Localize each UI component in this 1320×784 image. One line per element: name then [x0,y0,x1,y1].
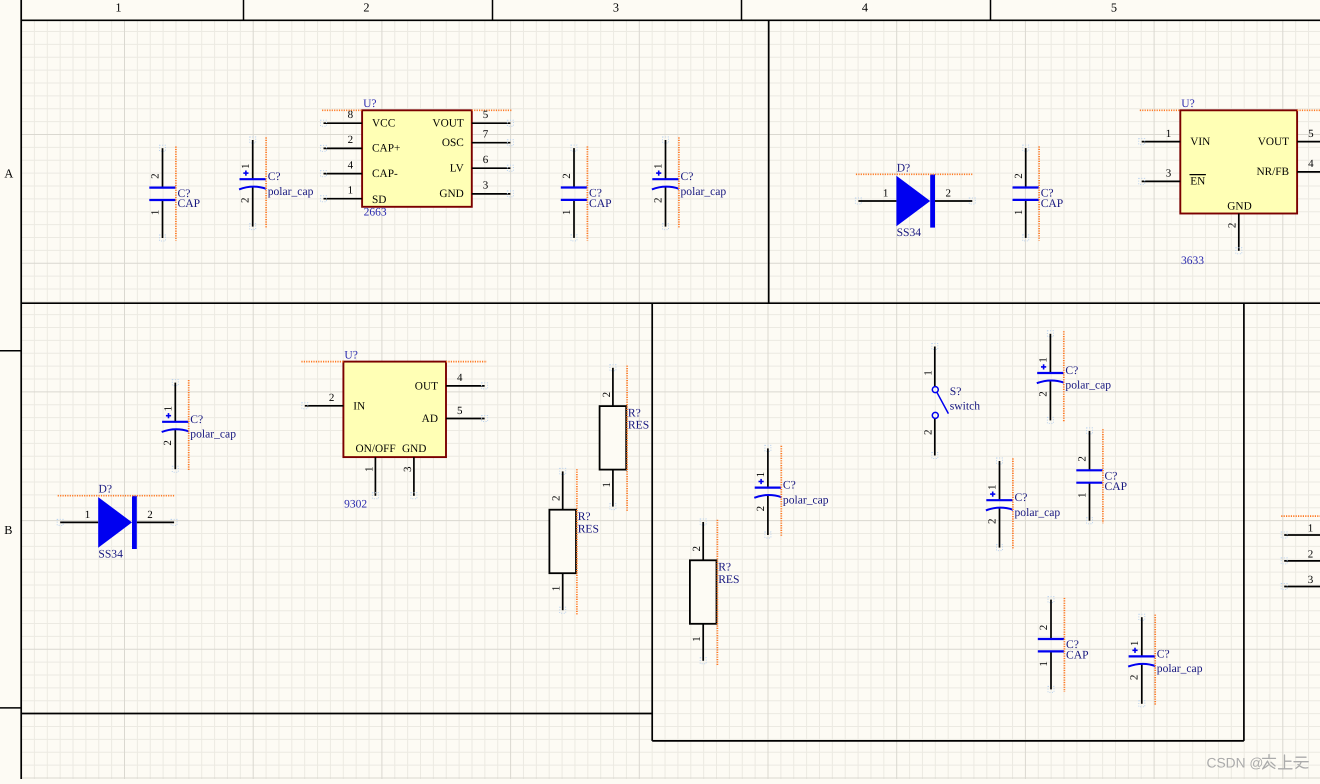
svg-text:R?: R? [578,510,591,523]
svg-text:polar_cap: polar_cap [268,185,314,198]
svg-text:CSDN @: CSDN @ [1207,755,1264,770]
resistor R3 (RES) [690,519,740,666]
svg-text:1: 1 [1308,523,1314,535]
svg-text:1: 1 [601,482,613,488]
partial IC U4 at right edge: orange top line [1281,515,1320,517]
switch S1 [922,344,980,459]
svg-text:1: 1 [348,185,354,197]
svg-text:4: 4 [1308,158,1314,170]
svg-text:GND: GND [439,188,463,200]
diode D1 (SS34) [855,161,975,239]
svg-text:7: 7 [483,129,489,141]
svg-text:2: 2 [240,197,252,203]
svg-text:1: 1 [922,370,934,376]
middle-left sheet bottom border y=713.5 [21,713,652,715]
svg-text:OUT: OUT [415,381,438,393]
svg-text:1: 1 [551,586,563,592]
svg-text:3: 3 [1166,168,1172,180]
ruler tick between zone 1 and 2 [243,0,245,20]
svg-text:VOUT: VOUT [1258,136,1289,148]
U4 left pin 1 [1281,523,1320,539]
svg-text:1: 1 [150,210,162,216]
svg-text:VOUT: VOUT [432,117,463,129]
svg-text:2: 2 [1129,675,1141,681]
capacitor C11 (CAP) [1038,597,1089,693]
U1 left pin 8 (VCC) [321,109,396,129]
svg-text:1: 1 [1013,210,1025,216]
svg-text:SS34: SS34 [897,226,922,239]
svg-text:2: 2 [691,546,703,552]
svg-text:CAP: CAP [1066,649,1089,662]
ruler tick between zone 2 and 3 [492,0,494,20]
polarized capacitor C4 (polar_cap) [652,137,727,230]
svg-text:VCC: VCC [372,117,395,129]
svg-text:SS34: SS34 [98,547,123,560]
svg-text:C?: C? [1157,647,1170,660]
svg-text:R?: R? [718,561,731,574]
svg-text:C?: C? [681,170,694,183]
svg-text:CAP: CAP [178,197,201,210]
vertical sheet divider x=768.7 (top) [768,20,770,303]
svg-text:2: 2 [755,506,767,512]
U1 right pin 5 (VOUT) [432,109,513,129]
polarized capacitor C6 (polar_cap) [162,380,237,473]
svg-text:CAP: CAP [1105,480,1128,493]
diode D2 (SS34) [57,483,177,561]
svg-text:4: 4 [457,372,463,384]
svg-text:1: 1 [363,467,375,473]
svg-text:1: 1 [1166,128,1172,140]
polarized capacitor C8 (polar_cap) [754,445,829,538]
svg-text:polar_cap: polar_cap [190,428,236,441]
svg-text:2: 2 [1038,625,1050,631]
U4 left pin 2 [1281,548,1320,564]
svg-text:1: 1 [1077,492,1089,498]
U3 right pin 4 (OUT) [415,372,488,392]
svg-text:RES: RES [628,419,649,432]
horizontal sheet divider at y=303 [21,302,1320,304]
svg-text:S?: S? [950,385,962,398]
svg-text:IN: IN [353,400,365,412]
svg-text:2: 2 [162,440,174,446]
left margin tick below zone B [0,707,21,709]
svg-text:2: 2 [329,392,335,404]
U1 right pin 7 (OSC) [442,129,514,149]
U2 bottom pin 2 (GND) [1227,201,1252,254]
svg-text:B: B [4,523,12,537]
svg-text:1: 1 [85,509,91,521]
svg-text:1: 1 [1129,641,1141,647]
svg-text:GND: GND [402,443,426,455]
svg-text:3633: 3633 [1181,255,1204,267]
svg-text:NR/FB: NR/FB [1256,166,1289,178]
polarized capacitor C2 (polar_cap) [239,137,314,230]
U4 left pin 3 [1281,574,1320,590]
svg-text:C?: C? [1065,364,1078,377]
svg-text:2: 2 [1013,173,1025,179]
svg-text:2: 2 [986,518,998,524]
svg-text:1: 1 [755,472,767,478]
svg-text:2: 2 [946,188,952,200]
svg-text:C?: C? [190,413,203,426]
U2 left pin 3 (EN, active low overline) [1139,168,1206,188]
svg-text:5: 5 [1111,1,1117,15]
svg-text:switch: switch [950,400,980,413]
U2 right pin 5 (VOUT) [1258,128,1320,148]
svg-text:polar_cap: polar_cap [681,185,727,198]
svg-text:2663: 2663 [364,206,387,218]
svg-text:1: 1 [987,484,999,490]
U3 bottom pin 1 (ON/OFF) [356,443,396,499]
capacitor C3 (CAP) [561,145,612,241]
U3 right pin 5 (AD) [422,405,488,425]
svg-text:2: 2 [652,197,664,203]
svg-text:2: 2 [147,509,153,521]
IC U2 (3633 LDO) body [1140,98,1320,267]
svg-text:D?: D? [897,161,911,174]
svg-text:RES: RES [718,573,739,586]
polarized capacitor C7 (polar_cap) [1037,331,1112,424]
U1 right pin 6 (LV) [450,154,514,174]
middle-right sheet right border x=1243.9 [1243,303,1245,741]
svg-text:3: 3 [613,1,619,15]
resistor R2 (RES) [549,468,599,615]
capacitor C1 (CAP) [149,145,200,241]
svg-text:C?: C? [268,170,281,183]
capacitor C10 (CAP) [1076,428,1127,524]
U2 right pin 4 (NR/FB) [1256,158,1320,178]
svg-text:VIN: VIN [1190,136,1210,148]
svg-text:3: 3 [1308,574,1314,586]
U1 left pin 2 (CAP+) [321,134,401,154]
svg-text:CAP: CAP [1041,197,1064,210]
svg-text:U?: U? [344,349,357,361]
U1 left pin 1 (SD) [321,185,387,207]
svg-text:4: 4 [862,1,868,15]
svg-text:polar_cap: polar_cap [1157,662,1203,675]
U3 bottom pin 3 (GND) [402,443,427,499]
svg-text:polar_cap: polar_cap [1065,379,1111,392]
svg-text:2: 2 [1227,223,1239,229]
svg-text:2: 2 [1308,548,1314,560]
resistor R1 (RES) [600,365,650,512]
svg-text:CAP-: CAP- [372,168,398,180]
svg-text:ON/OFF: ON/OFF [356,443,396,455]
svg-text:R?: R? [628,406,641,419]
svg-text:U?: U? [363,98,376,110]
left margin tick between zone A and B [0,350,21,352]
svg-text:6: 6 [483,154,489,166]
svg-text:GND: GND [1227,201,1251,213]
svg-text:2: 2 [561,173,573,179]
svg-text:1: 1 [561,210,573,216]
U3 left pin 2 (IN) [302,392,365,412]
svg-text:A: A [4,167,13,181]
svg-text:1: 1 [115,1,121,15]
svg-text:RES: RES [578,522,599,535]
vertical sheet divider x=652.2 (middle) [651,303,653,741]
svg-text:D?: D? [99,483,113,496]
svg-text:U?: U? [1181,98,1194,110]
svg-text:3: 3 [483,180,489,192]
svg-text:C?: C? [1015,491,1028,504]
svg-text:2: 2 [922,429,934,435]
IC U1 (2663 charge pump) body [322,98,512,218]
svg-text:polar_cap: polar_cap [783,493,829,506]
svg-text:2: 2 [363,1,369,15]
polarized capacitor C12 (polar_cap) [1128,614,1203,707]
ruler tick between zone 4 and 5 [990,0,992,20]
svg-text:CAP: CAP [589,197,612,210]
svg-text:1: 1 [883,188,889,200]
svg-text:1: 1 [240,163,252,169]
svg-text:2: 2 [1077,456,1089,462]
svg-text:5: 5 [457,405,463,417]
svg-text:2: 2 [150,173,162,179]
svg-text:C?: C? [783,479,796,492]
svg-text:8: 8 [348,109,354,121]
svg-text:OSC: OSC [442,137,464,149]
svg-text:1: 1 [653,163,665,169]
svg-text:2: 2 [348,134,354,146]
sheet frame: top border line [21,19,1320,21]
svg-text:3: 3 [402,466,414,472]
sheet frame: left border line [20,0,22,779]
svg-text:1: 1 [163,406,175,412]
polarized capacitor C9 (polar_cap) [986,458,1061,551]
svg-text:9302: 9302 [344,499,367,511]
svg-text:2: 2 [551,495,563,501]
svg-text:1: 1 [1038,661,1050,667]
U1 left pin 4 (CAP-) [321,159,398,179]
svg-text:CAP+: CAP+ [372,143,400,155]
svg-text:polar_cap: polar_cap [1015,506,1061,519]
svg-text:1: 1 [1038,357,1050,363]
svg-text:4: 4 [348,159,354,171]
svg-text:2: 2 [1037,391,1049,397]
svg-text:AD: AD [422,413,438,425]
IC U3 (9302 regulator) body [301,349,487,510]
middle-right sheet bottom border y=740.9 [652,740,1244,742]
watermark CSDN @yishangyun [1207,755,1309,771]
svg-text:5: 5 [1308,128,1314,140]
svg-text:2: 2 [601,392,613,398]
svg-text:1: 1 [691,636,703,642]
U2 left pin 1 (VIN) [1139,128,1211,148]
U1 right pin 3 (GND) [439,180,513,200]
ruler tick between zone 3 and 4 [741,0,743,20]
svg-text:LV: LV [450,162,465,174]
svg-text:SD: SD [372,194,386,206]
svg-text:EN: EN [1190,176,1205,188]
capacitor C5 (CAP) [1013,145,1064,241]
svg-text:5: 5 [483,109,489,121]
